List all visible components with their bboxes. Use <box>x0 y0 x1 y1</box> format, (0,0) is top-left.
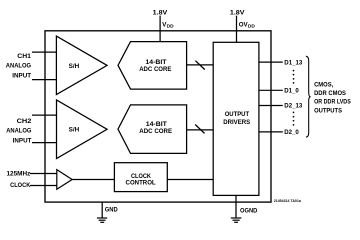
wire output D2_0 <box>259 131 283 133</box>
svg-text:CH2: CH2 <box>17 118 32 125</box>
svg-text:INPUT: INPUT <box>12 73 31 80</box>
wire CH2 input + <box>32 114 57 116</box>
svg-text:1.8V: 1.8V <box>230 9 246 16</box>
wire clock input - <box>30 185 57 187</box>
svg-text:OUTPUTS: OUTPUTS <box>314 107 342 114</box>
wire CH1 input - <box>32 79 56 81</box>
svg-text:DD: DD <box>167 24 175 29</box>
svg-text:ADC CORE: ADC CORE <box>139 128 172 135</box>
wire output D1_0 <box>259 89 283 91</box>
svg-text:ANALOG: ANALOG <box>6 127 31 134</box>
dots D1 bus <box>293 70 295 72</box>
clock control block <box>114 163 167 192</box>
svg-text:DDR CMOS: DDR CMOS <box>314 90 346 97</box>
svg-text:1.8V: 1.8V <box>153 9 169 16</box>
svg-text:S/H: S/H <box>69 127 80 134</box>
wire ADC2 data bus to output drivers <box>187 129 214 131</box>
svg-text:CLOCK: CLOCK <box>10 182 31 189</box>
clock buffer amplifier <box>57 170 72 190</box>
wire output D1_13 <box>259 61 283 63</box>
svg-text:125MHz: 125MHz <box>7 171 31 178</box>
svg-text:CH1: CH1 <box>17 53 31 60</box>
ground symbol OGND <box>231 217 242 219</box>
wire ADC1 data bus to output drivers <box>187 64 214 66</box>
wire clock control to output drivers <box>167 179 213 181</box>
svg-text:INPUT: INPUT <box>13 137 32 144</box>
ADC core 1 (14-BIT ADC CORE) <box>118 42 187 90</box>
svg-text:GND: GND <box>105 207 118 214</box>
ADC core 2 (14-BIT ADC CORE) <box>118 105 187 153</box>
svg-text:OR DDR LVDS: OR DDR LVDS <box>314 99 351 106</box>
svg-text:CONTROL: CONTROL <box>126 180 156 187</box>
svg-text:D2_0: D2_0 <box>284 129 299 136</box>
svg-text:OGND: OGND <box>240 207 258 214</box>
wire CH2 input - <box>32 142 57 144</box>
svg-text:ANALOG: ANALOG <box>6 62 31 69</box>
S/H amplifier 2 <box>57 100 108 159</box>
bus-width slash 2 <box>195 125 204 134</box>
svg-text:D2_13: D2_13 <box>284 103 303 110</box>
svg-text:DRIVERS: DRIVERS <box>223 119 250 126</box>
svg-text:S/H: S/H <box>69 63 80 70</box>
svg-text:21454314 TA01a: 21454314 TA01a <box>274 199 301 203</box>
svg-text:D1_0: D1_0 <box>284 88 299 95</box>
ground symbol GND <box>97 217 107 219</box>
svg-text:DD: DD <box>248 24 256 29</box>
wire output D2_13 <box>259 105 283 107</box>
wire CH1 input + <box>32 51 56 53</box>
svg-text:D1_13: D1_13 <box>284 59 303 66</box>
output drivers block <box>213 42 259 195</box>
brace grouping outputs <box>306 56 311 137</box>
wire GND <box>101 202 103 218</box>
wire clock buffer to clock control <box>72 179 114 181</box>
bus-width slash 1 <box>195 61 204 70</box>
node OVDD supply wire <box>236 16 238 43</box>
outer box U1 (ADC chip boundary) <box>45 31 271 202</box>
wire clock input + <box>30 173 57 175</box>
node VDD supply wire <box>159 16 161 42</box>
svg-text:OUTPUT: OUTPUT <box>225 111 250 118</box>
wire OGND <box>235 195 237 217</box>
S/H amplifier 1 <box>56 36 107 95</box>
svg-text:CMOS,: CMOS, <box>314 82 333 89</box>
svg-text:ADC CORE: ADC CORE <box>139 66 171 73</box>
dots D2 bus <box>293 112 295 114</box>
